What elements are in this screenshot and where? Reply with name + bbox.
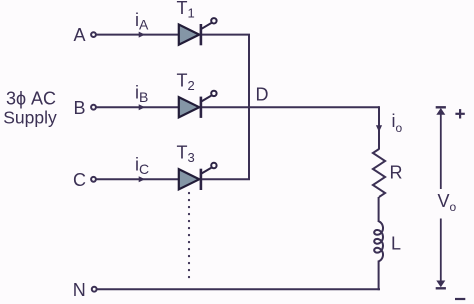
resistor R (373, 149, 385, 197)
wire bottom return (97, 288, 380, 290)
svg-text:B: B (73, 98, 85, 118)
minus sign (455, 298, 465, 300)
wire T3 output to bus (202, 107, 249, 179)
svg-text:3ϕ AC: 3ϕ AC (6, 89, 56, 109)
current arrow iC (139, 176, 145, 182)
current arrow io (376, 125, 382, 132)
svg-text:T1: T1 (177, 0, 195, 20)
svg-text:L: L (391, 234, 401, 254)
Vo line upper (440, 112, 442, 189)
wire load vertical lower to bottom (378, 261, 380, 291)
svg-text:N: N (73, 280, 86, 300)
svg-text:R: R (390, 162, 403, 182)
terminal C (91, 177, 96, 182)
current arrow iB (139, 104, 145, 110)
Vo arrow down (436, 281, 445, 288)
inductor L (374, 221, 383, 261)
wire load vertical upper (378, 106, 380, 149)
svg-text:Supply: Supply (3, 108, 57, 128)
svg-text:iC: iC (135, 155, 149, 177)
svg-text:T2: T2 (177, 71, 195, 93)
svg-text:C: C (73, 170, 86, 190)
thyristor T2 (179, 91, 217, 118)
svg-text:D: D (256, 84, 269, 104)
wire C input (96, 178, 178, 180)
dotted continuation line (188, 193, 190, 280)
svg-text:iB: iB (135, 83, 148, 105)
Vo bottom bar (436, 287, 446, 289)
svg-text:iA: iA (135, 10, 149, 32)
svg-text:io: io (392, 111, 403, 135)
plus sign (455, 113, 464, 115)
svg-text:Vo: Vo (438, 191, 457, 214)
svg-text:A: A (73, 25, 85, 45)
Vo indicator top bar (436, 106, 446, 108)
wire A input (96, 34, 178, 36)
terminal N (92, 287, 97, 292)
wire between R and L (378, 197, 380, 222)
wire T1 output to bus (202, 35, 249, 108)
thyristor T3 (179, 163, 217, 190)
terminal A (91, 32, 96, 37)
Vo line lower (440, 219, 442, 284)
wire T2 output through node D to load (202, 106, 379, 108)
Vo arrow up (436, 108, 445, 115)
wire B input (96, 106, 178, 108)
current arrow iA (139, 32, 145, 38)
terminal B (91, 105, 96, 110)
thyristor T1 (179, 18, 217, 45)
svg-text:T3: T3 (177, 143, 195, 165)
